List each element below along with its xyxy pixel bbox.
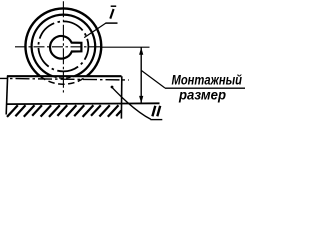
svg-text:Монтажный: Монтажный [172, 72, 243, 88]
wheel outer circle (visible arc) [25, 8, 101, 76]
rail right edge [120, 76, 122, 118]
leader II start dot [111, 86, 114, 89]
label I overbar [111, 5, 117, 7]
mounting level dash-dot line [0, 78, 129, 80]
hatching [7, 105, 121, 117]
leader I to keyway [84, 23, 105, 37]
wheel rim inner circle (visible arc) [32, 15, 96, 77]
hub bore with keyway [50, 36, 81, 59]
horizontal centerline [15, 46, 102, 48]
wheel rim inner circle hidden bottom (dashed) [52, 76, 74, 78]
svg-text:размер: размер [178, 87, 226, 103]
dimension extension line top (center level) [102, 46, 150, 48]
dimension arrow down [139, 96, 143, 104]
rail left edge [6, 76, 7, 114]
label II underline [150, 119, 162, 121]
vertical centerline [62, 1, 64, 92]
label II strokes [152, 106, 160, 117]
wheel outer circle hidden bottom (dashed) [40, 76, 87, 84]
leader II to rail [112, 87, 151, 119]
dimension line [140, 47, 142, 103]
rail top edge [7, 75, 122, 77]
rail bottom edge / dimension extension line [7, 102, 160, 105]
dimension text shelf [165, 87, 245, 89]
leader to dimension text [141, 71, 164, 88]
label I stroke [110, 9, 113, 19]
dash-dot pitch circle [38, 21, 88, 71]
label I underline [105, 22, 117, 24]
dimension arrow up [139, 47, 143, 55]
